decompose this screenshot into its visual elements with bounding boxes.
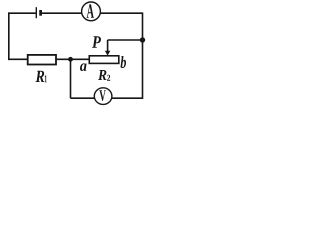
ammeter A: letter A <box>87 4 94 18</box>
voltmeter V: letter V <box>99 90 106 101</box>
battery cell: short thick plate (negative) <box>39 10 42 16</box>
ammeter A: circle body <box>82 2 101 21</box>
wire: vertical drop from node a junction to bottom row <box>70 59 72 98</box>
wire: middle row, R1 to R2 through node a <box>56 58 89 60</box>
rheostat R2: slider arrowhead P <box>105 51 110 56</box>
wire: top row, battery to top-right corner <box>42 12 143 14</box>
voltmeter V: circle body <box>94 88 112 105</box>
wire: slider branch horizontal from right side <box>108 39 143 41</box>
rheostat R2: slider label P <box>92 36 101 48</box>
resistor R1: label subscript 1 <box>45 75 47 82</box>
resistor R1: box body <box>28 55 56 65</box>
battery cell: long plate (positive) <box>35 7 37 18</box>
wire: middle row, left corner to R1 <box>8 58 28 60</box>
node a: label <box>80 63 87 71</box>
node a: junction dot <box>68 57 73 62</box>
rheostat R2: label R <box>98 70 107 80</box>
wire: slider branch vertical stub <box>107 40 109 51</box>
wire: right side vertical <box>142 12 144 99</box>
rheostat R2: box body <box>89 56 119 64</box>
node b: label <box>121 56 127 68</box>
node P branch: junction dot top-right <box>140 37 145 42</box>
wire: left side vertical <box>8 12 10 60</box>
wire: top row, left segment to battery <box>8 12 36 14</box>
rheostat R2: label subscript 2 <box>107 75 110 81</box>
wire: bottom row through voltmeter <box>71 97 143 99</box>
resistor R1: label R <box>36 71 45 82</box>
